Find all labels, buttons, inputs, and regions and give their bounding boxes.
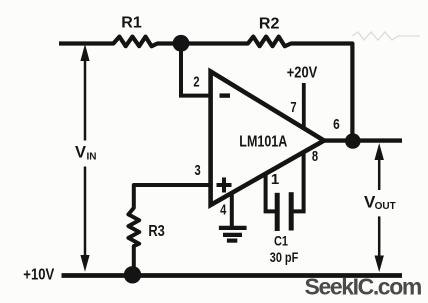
wire pin 1 to capacitor — [266, 174, 276, 212]
wire pin 8 to capacitor — [292, 151, 304, 211]
svg-text:8: 8 — [312, 148, 318, 165]
wire pin 4 to ground — [230, 193, 234, 228]
wire bottom +10V rail — [62, 273, 403, 278]
capacitor C1 left plate — [275, 193, 280, 231]
svg-text:+10V: +10V — [23, 266, 55, 283]
wire top rail — [59, 37, 352, 141]
svg-text:V: V — [75, 144, 86, 162]
op-amp non-inverting input plus sign — [217, 178, 232, 193]
wire output pin 6 — [324, 138, 402, 142]
VIN measurement arrow line upper — [84, 59, 87, 141]
VOUT measurement arrow line upper — [378, 158, 381, 190]
VIN arrowhead down — [80, 255, 89, 272]
svg-text:R1: R1 — [121, 15, 142, 32]
output node junction dot — [345, 133, 361, 149]
svg-text:7: 7 — [290, 99, 296, 116]
wire node A to pin 2 — [181, 47, 210, 96]
svg-text:2: 2 — [193, 74, 199, 91]
svg-text:4: 4 — [220, 202, 227, 219]
svg-text:+20V: +20V — [287, 65, 318, 82]
svg-text:3: 3 — [195, 162, 201, 179]
svg-text:C1: C1 — [274, 234, 288, 249]
node A junction dot — [173, 35, 190, 52]
background ghost zigzag artifact — [352, 32, 420, 40]
ground symbol — [219, 228, 247, 241]
svg-text:OUT: OUT — [375, 201, 396, 212]
svg-text:SeekIC.com: SeekIC.com — [305, 274, 422, 300]
op-amp inverting input minus sign — [220, 93, 231, 97]
VIN measurement arrow line lower — [84, 167, 87, 258]
VIN arrowhead up — [80, 44, 89, 61]
svg-text:R3: R3 — [148, 223, 165, 240]
capacitor C1 right plate — [289, 192, 294, 230]
svg-text:LM101A: LM101A — [239, 134, 287, 151]
svg-text:1: 1 — [271, 171, 279, 188]
VOUT arrowhead up — [375, 143, 384, 160]
wire pin 3 and resistor R3 branch — [128, 185, 210, 273]
svg-text:30 pF: 30 pF — [270, 249, 299, 265]
op-amp U1 LM101A triangle — [211, 72, 324, 206]
VOUT arrowhead down — [375, 256, 384, 273]
svg-text:IN: IN — [87, 152, 97, 163]
wire pin 7 to +20V — [302, 83, 306, 128]
svg-text:R2: R2 — [259, 16, 280, 33]
VOUT measurement arrow line lower — [378, 216, 381, 257]
svg-text:6: 6 — [333, 116, 340, 133]
node B junction dot on +10V rail — [124, 266, 141, 283]
